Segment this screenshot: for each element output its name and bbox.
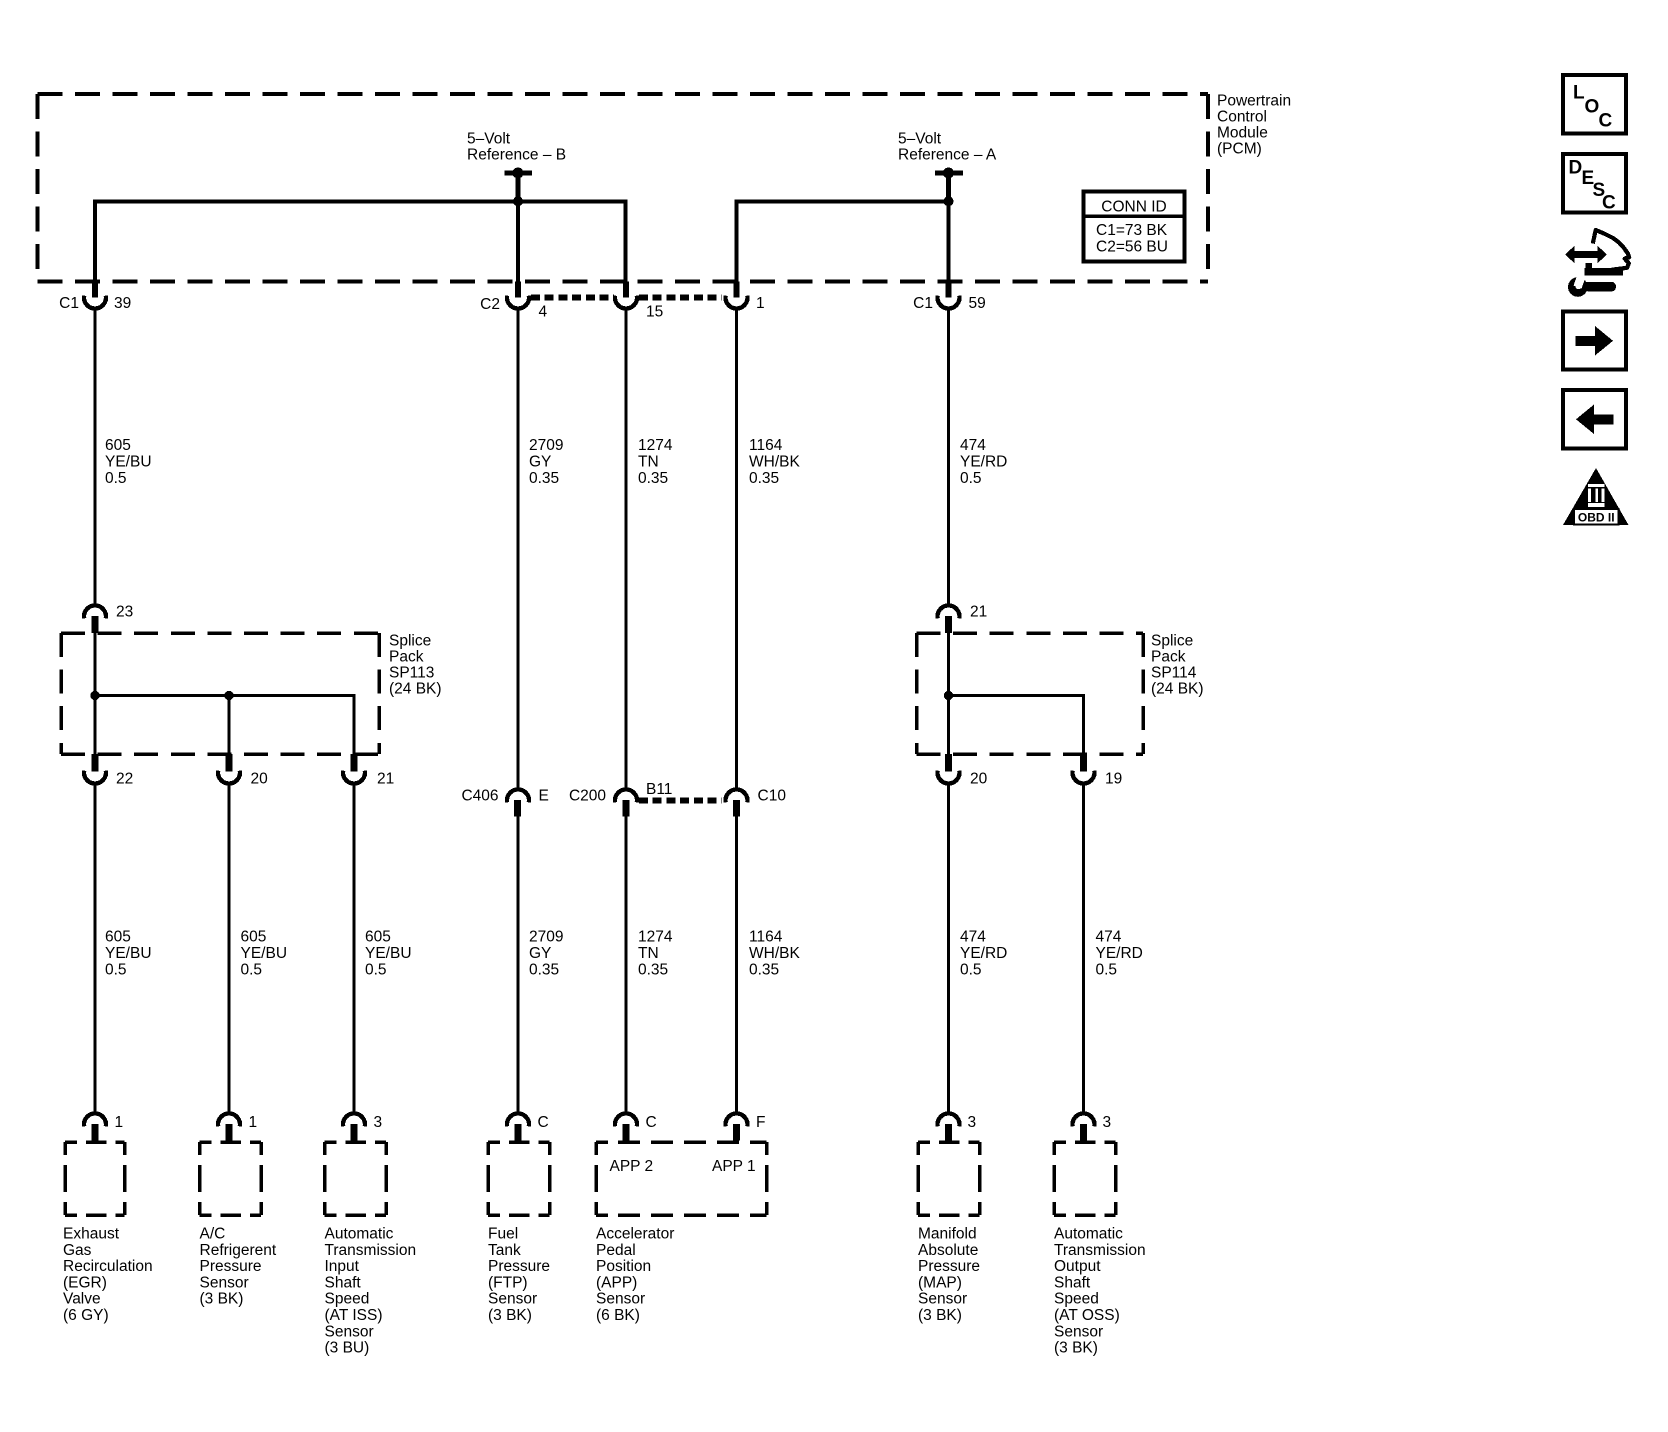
label APP sensor: [596, 1226, 674, 1325]
svg-text:(EGR): (EGR): [63, 1274, 107, 1291]
label FTP sensor: [488, 1226, 550, 1325]
svg-text:(AT OSS): (AT OSS): [1054, 1307, 1120, 1324]
icon DESC box: [1563, 154, 1626, 214]
svg-text:C200: C200: [569, 788, 606, 805]
svg-text:Speed: Speed: [1054, 1291, 1099, 1308]
in-line dotted link 15 to 1: [639, 295, 722, 301]
wire 605 lower C (21 to AT ISS): [353, 784, 356, 1114]
svg-text:Recirculation: Recirculation: [63, 1258, 153, 1275]
svg-text:GY: GY: [529, 454, 551, 471]
icon LOC box: [1563, 75, 1626, 134]
FTP sensor dashed box: [488, 1142, 550, 1215]
svg-text:0.35: 0.35: [529, 470, 559, 487]
connector pin 19 (SP114): [1073, 754, 1123, 788]
svg-text:Speed: Speed: [325, 1291, 370, 1308]
svg-text:605: 605: [365, 929, 391, 946]
svg-text:Sensor: Sensor: [488, 1291, 537, 1308]
svg-text:Splice: Splice: [389, 633, 431, 650]
svg-text:OBD II: OBD II: [1578, 511, 1615, 525]
connector pin 23 (SP113 top): [84, 604, 133, 634]
svg-text:605: 605: [105, 929, 131, 946]
svg-text:1274: 1274: [638, 437, 673, 454]
svg-text:C1=73 BK: C1=73 BK: [1096, 222, 1168, 239]
svg-text:C1: C1: [913, 295, 933, 312]
connector AT ISS pin 3: [343, 1113, 382, 1140]
svg-text:C: C: [538, 1114, 549, 1131]
svg-text:Module: Module: [1217, 125, 1268, 142]
svg-text:Position: Position: [596, 1258, 651, 1275]
svg-text:0.5: 0.5: [960, 962, 982, 979]
svg-text:474: 474: [960, 929, 986, 946]
svg-text:2709: 2709: [529, 437, 563, 454]
in-line dotted link 4 to 15: [531, 295, 614, 301]
svg-text:39: 39: [114, 295, 131, 312]
svg-text:Pressure: Pressure: [918, 1258, 980, 1275]
svg-text:0.5: 0.5: [365, 962, 387, 979]
connector pin 22: [84, 754, 133, 788]
svg-text:1164: 1164: [749, 437, 783, 454]
connector AT OSS pin 3: [1073, 1113, 1112, 1140]
svg-text:Transmission: Transmission: [325, 1242, 417, 1259]
svg-text:YE/BU: YE/BU: [241, 945, 288, 962]
wire: right 5V bus: [737, 201, 949, 282]
wire 605 YE/BU upper (C1-39 to SP113): [94, 309, 97, 606]
svg-text:Tank: Tank: [488, 1242, 521, 1259]
svg-text:0.35: 0.35: [749, 962, 779, 979]
PCM label: [1217, 92, 1291, 157]
wire: SP114 bus: [949, 696, 1084, 755]
svg-text:5–Volt: 5–Volt: [467, 131, 511, 148]
svg-text:Splice: Splice: [1151, 633, 1193, 650]
connector A/C pin 1: [218, 1113, 257, 1140]
svg-text:C1: C1: [59, 295, 79, 312]
in-line dotted link B11 to C10: [639, 798, 722, 804]
svg-text:Refrigerent: Refrigerent: [200, 1242, 277, 1259]
svg-text:Pack: Pack: [1151, 649, 1186, 666]
svg-text:1164: 1164: [749, 929, 783, 946]
svg-text:Sensor: Sensor: [325, 1323, 374, 1340]
svg-text:Shaft: Shaft: [325, 1274, 362, 1291]
label SP114: [1151, 633, 1204, 698]
connector pin 21 (SP113): [343, 754, 394, 788]
icon back arrow box: [1563, 390, 1626, 449]
wire 605 lower B (20 to A/C): [228, 784, 231, 1114]
wire 474 YE/RD lower B: [1082, 784, 1085, 1114]
svg-text:C: C: [646, 1114, 657, 1131]
label wire 474 lower A: [960, 929, 1007, 979]
connector C200 pin B11: [569, 781, 673, 817]
svg-text:Reference – A: Reference – A: [898, 147, 997, 164]
svg-text:0.35: 0.35: [749, 470, 779, 487]
splice pack SP113 dashed box: [61, 633, 379, 754]
svg-text:Control: Control: [1217, 109, 1267, 126]
svg-text:(PCM): (PCM): [1217, 141, 1262, 158]
connector pin C10: [726, 788, 787, 817]
APP sensor dashed box: [596, 1142, 767, 1215]
svg-text:E: E: [539, 788, 549, 805]
svg-text:(6 GY): (6 GY): [63, 1307, 109, 1324]
label wire 1274 lower: [638, 929, 673, 979]
5-Volt Reference B label: [467, 131, 566, 164]
svg-text:Output: Output: [1054, 1258, 1101, 1275]
connector C406 pin E: [461, 788, 548, 817]
svg-text:59: 59: [969, 295, 986, 312]
wire 1164 WH/BK upper: [735, 309, 738, 791]
svg-text:Pressure: Pressure: [200, 1258, 262, 1275]
svg-text:4: 4: [539, 304, 548, 321]
icon forward arrow box: [1563, 312, 1626, 370]
svg-text:CONN ID: CONN ID: [1101, 198, 1166, 215]
svg-text:(FTP): (FTP): [488, 1274, 528, 1291]
label wire 605 lower B: [241, 929, 288, 979]
svg-text:20: 20: [970, 771, 988, 788]
svg-text:(24 BK): (24 BK): [389, 681, 442, 698]
AT OSS sensor dashed box: [1054, 1142, 1116, 1215]
label EGR valve: [63, 1226, 153, 1325]
svg-text:Gas: Gas: [63, 1242, 92, 1259]
label wire 605 lower C: [365, 929, 412, 979]
svg-text:(3 BK): (3 BK): [1054, 1340, 1098, 1357]
5-Volt Reference B terminal bar: [505, 171, 533, 176]
wire 1274 TN lower: [625, 817, 628, 1114]
svg-text:22: 22: [116, 771, 133, 788]
svg-text:Powertrain: Powertrain: [1217, 92, 1291, 109]
svg-text:23: 23: [116, 604, 133, 621]
svg-text:Fuel: Fuel: [488, 1226, 518, 1243]
svg-text:SP113: SP113: [389, 665, 434, 682]
label wire 605 lower A: [105, 929, 152, 979]
label wire 1164 lower: [749, 929, 800, 979]
svg-text:(3 BU): (3 BU): [325, 1340, 370, 1357]
svg-text:Sensor: Sensor: [596, 1291, 645, 1308]
wire 474 YE/RD lower A: [947, 784, 950, 1114]
wire: C1-59 drop: [947, 201, 951, 282]
MAP sensor dashed box: [918, 1142, 980, 1215]
label wire 2709 upper: [529, 437, 563, 487]
svg-text:C2: C2: [480, 296, 500, 313]
svg-text:605: 605: [105, 437, 131, 454]
connector C1 pin 59: [913, 282, 986, 313]
svg-text:APP 1: APP 1: [712, 1158, 756, 1175]
connector EGR pin 1: [84, 1113, 123, 1140]
A/C refrigerant pressure sensor dashed box: [200, 1142, 262, 1215]
connector pin 1: [726, 282, 765, 313]
svg-text:F: F: [756, 1114, 765, 1131]
label wire 474 lower B: [1096, 929, 1143, 979]
connector pin 20 (SP114): [938, 754, 988, 788]
svg-text:0.35: 0.35: [638, 470, 668, 487]
connector pin 20 (SP113): [218, 754, 268, 788]
svg-text:Transmission: Transmission: [1054, 1242, 1146, 1259]
wire: left 5V bus: [95, 201, 626, 282]
connector MAP pin 3: [938, 1113, 977, 1140]
svg-text:5–Volt: 5–Volt: [898, 131, 942, 148]
svg-text:20: 20: [251, 771, 269, 788]
svg-text:C: C: [1599, 110, 1613, 131]
svg-text:0.5: 0.5: [105, 962, 127, 979]
svg-text:YE/RD: YE/RD: [960, 945, 1007, 962]
wire 2709 GY upper: [517, 309, 520, 791]
svg-text:474: 474: [1096, 929, 1122, 946]
svg-text:Absolute: Absolute: [918, 1242, 978, 1259]
wire inside SP113 vertical: [94, 633, 97, 754]
AT ISS sensor dashed box: [325, 1142, 387, 1215]
node: SP114 junction dot: [944, 691, 953, 700]
svg-text:0.5: 0.5: [1096, 962, 1118, 979]
connector APP1 pin F: [726, 1113, 766, 1140]
svg-text:O: O: [1585, 97, 1600, 118]
svg-text:Accelerator: Accelerator: [596, 1226, 674, 1243]
svg-text:Input: Input: [325, 1258, 360, 1275]
svg-text:2709: 2709: [529, 929, 563, 946]
svg-text:D: D: [1569, 158, 1583, 179]
wire 605 lower A (22 to EGR): [94, 784, 97, 1114]
svg-text:(AT ISS): (AT ISS): [325, 1307, 383, 1324]
svg-text:Automatic: Automatic: [1054, 1226, 1123, 1243]
svg-text:0.5: 0.5: [960, 470, 982, 487]
svg-text:WH/BK: WH/BK: [749, 945, 800, 962]
svg-text:APP 2: APP 2: [610, 1158, 654, 1175]
node: junction dot ref B: [513, 196, 523, 206]
svg-text:19: 19: [1105, 771, 1122, 788]
EGR valve dashed box: [65, 1142, 125, 1215]
svg-text:1274: 1274: [638, 929, 673, 946]
label wire 474 upper: [960, 437, 1007, 487]
svg-text:3: 3: [1103, 1114, 1112, 1131]
svg-text:(APP): (APP): [596, 1274, 637, 1291]
svg-text:YE/RD: YE/RD: [1096, 945, 1143, 962]
svg-text:(24 BK): (24 BK): [1151, 681, 1204, 698]
wire: SP113 bus: [95, 696, 354, 755]
svg-text:21: 21: [377, 771, 394, 788]
svg-text:C406: C406: [461, 788, 498, 805]
svg-text:WH/BK: WH/BK: [749, 454, 800, 471]
label wire 605 upper: [105, 437, 152, 487]
svg-text:0.35: 0.35: [529, 962, 559, 979]
svg-text:TN: TN: [638, 945, 659, 962]
svg-text:C2=56 BU: C2=56 BU: [1096, 239, 1168, 256]
connector APP2 pin C: [615, 1113, 657, 1140]
svg-text:C10: C10: [758, 788, 787, 805]
svg-text:Valve: Valve: [63, 1291, 101, 1308]
svg-text:A/C: A/C: [200, 1226, 226, 1243]
svg-text:Sensor: Sensor: [200, 1274, 249, 1291]
svg-text:15: 15: [646, 304, 663, 321]
svg-text:Automatic: Automatic: [325, 1226, 394, 1243]
svg-text:474: 474: [960, 437, 986, 454]
svg-text:Pedal: Pedal: [596, 1242, 636, 1259]
svg-text:(3 BK): (3 BK): [918, 1307, 962, 1324]
wire 474 YE/RD upper (C1-59 to SP114): [947, 309, 950, 606]
svg-text:Pack: Pack: [389, 649, 424, 666]
label AT OSS sensor: [1054, 1226, 1146, 1357]
label wire 1164 upper: [749, 437, 800, 487]
svg-text:0.35: 0.35: [638, 962, 668, 979]
svg-text:3: 3: [968, 1114, 977, 1131]
CONN ID table: [1084, 192, 1185, 262]
svg-text:Exhaust: Exhaust: [63, 1226, 120, 1243]
svg-text:SP114: SP114: [1151, 665, 1197, 682]
connector C2 pin 4: [480, 282, 547, 321]
wire 1164 WH/BK lower: [735, 817, 738, 1114]
wire: SP113 branch to 20: [228, 696, 231, 755]
svg-text:0.5: 0.5: [105, 470, 127, 487]
svg-text:YE/BU: YE/BU: [365, 945, 412, 962]
svg-text:(MAP): (MAP): [918, 1274, 962, 1291]
svg-text:1: 1: [115, 1114, 124, 1131]
node: junction dot ref A: [944, 196, 954, 206]
svg-text:L: L: [1573, 83, 1585, 104]
svg-text:0.5: 0.5: [241, 962, 263, 979]
wire 1274 TN upper: [625, 309, 628, 791]
svg-text:YE/RD: YE/RD: [960, 454, 1007, 471]
svg-text:TN: TN: [638, 454, 659, 471]
5-Volt Reference A label: [898, 131, 997, 164]
svg-text:Manifold: Manifold: [918, 1226, 977, 1243]
svg-text:GY: GY: [529, 945, 551, 962]
label wire 1274 upper: [638, 437, 673, 487]
svg-text:YE/BU: YE/BU: [105, 454, 152, 471]
PCM module dashed box: [38, 94, 1209, 282]
node: SP113 junction dot mid: [224, 691, 233, 700]
connector FTP pin C: [507, 1113, 549, 1140]
svg-text:605: 605: [241, 929, 267, 946]
wire inside SP114 vertical: [947, 633, 950, 754]
node: SP113 junction dot left: [90, 691, 99, 700]
label wire 2709 lower: [529, 929, 563, 979]
svg-text:(3 BK): (3 BK): [200, 1291, 244, 1308]
svg-text:21: 21: [970, 604, 987, 621]
label A/C sensor: [200, 1226, 277, 1308]
label AT ISS sensor: [325, 1226, 417, 1357]
wire: C2-4 drop: [516, 201, 520, 282]
label SP113: [389, 633, 442, 698]
svg-text:Sensor: Sensor: [918, 1291, 967, 1308]
svg-text:YE/BU: YE/BU: [105, 945, 152, 962]
svg-text:Shaft: Shaft: [1054, 1274, 1091, 1291]
svg-text:B11: B11: [646, 781, 672, 798]
connector pin 21 (SP114 top): [938, 604, 988, 634]
svg-text:Sensor: Sensor: [1054, 1323, 1103, 1340]
svg-text:(6 BK): (6 BK): [596, 1307, 640, 1324]
label MAP sensor: [918, 1226, 980, 1325]
splice pack SP114 dashed box: [917, 633, 1144, 754]
connector pin 15: [615, 282, 663, 321]
svg-text:1: 1: [249, 1114, 258, 1131]
svg-text:1: 1: [756, 295, 765, 312]
svg-text:Pressure: Pressure: [488, 1258, 550, 1275]
svg-text:C: C: [1602, 193, 1616, 214]
wire 2709 GY lower: [517, 817, 520, 1114]
connector C1 pin 39: [59, 282, 131, 313]
svg-text:(3 BK): (3 BK): [488, 1307, 532, 1324]
5-Volt Reference A terminal bar: [935, 171, 963, 176]
icon OBD II triangle: [1563, 468, 1629, 525]
svg-text:Reference – B: Reference – B: [467, 147, 566, 164]
icon jump-to-wiring (arrow + wrench): [1565, 230, 1629, 297]
svg-text:3: 3: [374, 1114, 383, 1131]
